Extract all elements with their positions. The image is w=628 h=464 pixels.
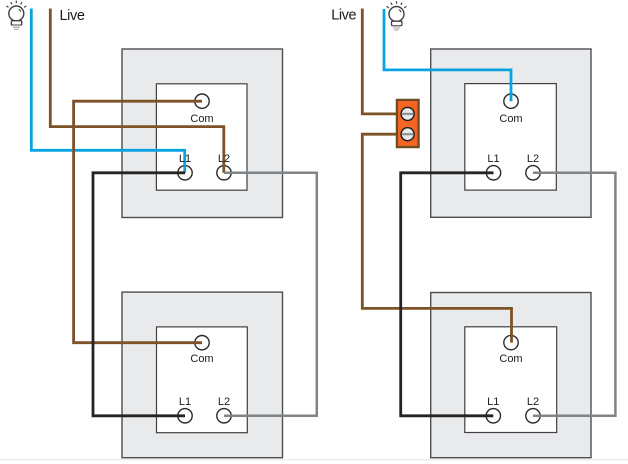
wire brown SW1 Com to SW2 Com — [74, 101, 202, 343]
svg-text:Com: Com — [190, 113, 213, 125]
svg-text:L1: L1 — [487, 153, 499, 165]
terminal SW1 Com — [195, 94, 209, 108]
wire brown connector bottom to SW4 Com — [362, 134, 511, 342]
svg-text:Com: Com — [499, 113, 522, 125]
terminal SW2 L2 — [217, 409, 231, 423]
svg-text:L2: L2 — [527, 396, 539, 408]
connector J1 screw 1 — [401, 107, 414, 120]
switch SW1 mounting box (top-left) — [122, 49, 283, 218]
terminal SW4 L2 — [526, 409, 540, 423]
svg-text:Live: Live — [60, 8, 85, 24]
wire blue lamp2 to SW3 Com — [384, 9, 511, 101]
svg-text:L1: L1 — [179, 396, 191, 408]
terminal SW3 Com — [504, 94, 518, 108]
svg-text:Live: Live — [331, 8, 356, 24]
lamp DS1 (top-left bulb) — [6, 1, 26, 30]
svg-text:L1: L1 — [179, 153, 191, 165]
switch SW2 plate — [157, 327, 248, 433]
switch SW3 mounting box (top-right) — [431, 49, 591, 217]
wire brown Live to SW1 L2 — [50, 9, 224, 173]
page rule bottom — [0, 459, 628, 461]
switch SW4 plate — [465, 327, 557, 433]
switch SW2 mounting box (bottom-left) — [122, 292, 283, 458]
svg-text:Com: Com — [499, 353, 522, 365]
wire blue lamp1 to SW1 L1 — [31, 9, 184, 173]
svg-text:L2: L2 — [527, 153, 539, 165]
wire black SW3 L1 to SW4 L1 — [401, 173, 494, 416]
terminal SW1 L1 — [178, 166, 192, 180]
wire black SW1 L1 to SW2 L1 — [93, 173, 185, 416]
connector J1 screw 2 — [401, 128, 414, 141]
switch SW4 mounting box (bottom-right) — [431, 293, 591, 458]
terminal SW4 Com — [504, 335, 518, 349]
wire gray SW1 L2 to SW2 L2 — [224, 173, 317, 416]
switch SW1 plate — [156, 84, 247, 190]
svg-text:L2: L2 — [218, 396, 230, 408]
svg-text:L1: L1 — [487, 396, 499, 408]
terminal SW2 L1 — [178, 409, 192, 423]
wire brown Live to connector top — [362, 9, 396, 114]
lamp DS2 (top-right bulb) — [387, 1, 407, 30]
terminal SW2 Com — [195, 336, 209, 350]
wire gray SW3 L2 to SW4 L2 — [533, 173, 615, 416]
terminal SW4 L1 — [486, 409, 500, 423]
switch SW3 plate — [465, 84, 557, 191]
svg-text:L2: L2 — [218, 153, 230, 165]
terminal SW3 L1 — [486, 166, 500, 180]
terminal SW3 L2 — [526, 166, 540, 180]
svg-text:Com: Com — [190, 353, 213, 365]
connector block J1 — [397, 100, 419, 147]
terminal SW1 L2 — [217, 166, 231, 180]
